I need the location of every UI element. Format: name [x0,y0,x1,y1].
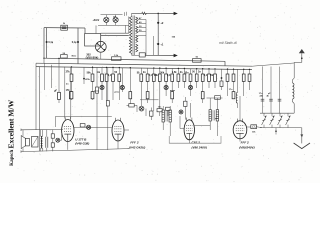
wire antenna to coupling coil [294,61,302,63]
svg-text:CFF 2: CFF 2 [192,141,201,145]
wire rectifier anode pair to transformer [101,32,129,34]
wire tube V4 leads [180,128,184,130]
arrowhead on ground drop [300,134,303,137]
wire output transformer leads [40,130,42,137]
node +1 tap [157,43,159,45]
wire tube V5 plate to resistor right [247,126,251,128]
wire chassis left vertical to bottom rail [39,67,41,152]
wire branch to bottom heater line [152,36,154,55]
svg-text:1m: 1m [97,71,100,74]
capacitor dot string x=84 [83,67,85,84]
resistor R2 in series on B+ wire [112,57,122,61]
resistor string x=113 [112,67,114,100]
resistor R-series on B+ wire (50) [61,55,68,58]
component string x=215.0 below bus [214,69,216,88]
component string x=202.7 below bus [202,69,204,103]
resistor string x=227.5 (17n) [227,69,229,96]
resistor string x=102 with trimmer [101,67,103,100]
wire extension x=153.8 down [153,88,155,111]
IF1 core [165,111,167,122]
wire audio comps to tube V2 [52,130,54,134]
bus line upper (HT rail) [36,63,252,66]
wire mains top horizontal [44,27,85,29]
fuse F1 on mains top wire [61,25,68,30]
wire rectifier cathode down to B+ wire [100,52,102,59]
wire tube V2 plate to coupling comps [74,126,112,128]
svg-text:50k: 50k [160,71,165,74]
resistor rect x=151 band [150,111,153,116]
wire B+ drop to bus right end [224,61,226,66]
wire mains right vertical [77,28,79,64]
speaker LS1 magnet [25,138,29,146]
wire tube V3 bottom to rail [117,141,119,149]
wire ground drop [301,128,303,144]
wire heater line top with arrow [132,12,177,14]
wire bottom heater line with arrow [146,54,177,56]
wire IF2 bottoms down [209,121,211,130]
wire extension x=159.8 down [159,88,161,109]
svg-text:27k: 27k [66,71,71,74]
resistor string x=233.5 [233,69,235,96]
resistor above tube V4 [184,101,187,106]
transformer T1 secondary winding section 3 [136,35,138,43]
component string x=209.0 below bus [208,69,210,88]
wire connections mid band [136,105,138,112]
antenna coupling coil L1 [292,78,294,83]
svg-text:µm: µm [215,118,218,120]
capacitor string x=59 from B+ wire [58,58,60,103]
svg-text:50k: 50k [87,71,92,74]
wire lamp row drop to switch box [95,25,97,33]
switch contact dot right with label [77,41,79,43]
IF transformer IF2 left winding [209,110,211,121]
bus line lower (chassis rail) [36,67,252,70]
svg-text:mit Stativ-dl: mit Stativ-dl [219,41,237,45]
svg-text:FFF 2: FFF 2 [130,141,138,145]
wire extension x=190.5 down to tube V4 top [190,103,192,118]
resistor string x=130.3 lower resistor [129,68,131,104]
trimmer cap string x=122.3 [121,68,123,92]
wire tube V4 plate to IF2 [195,125,211,127]
svg-text:(V50 80k): (V50 80k) [86,56,99,60]
svg-text:FFF 2: FFF 2 [241,141,249,145]
wire horizontal segment y=100 left of IF1 [140,99,159,101]
wire resistor to gang bottom rail [257,126,262,129]
svg-text:30k: 30k [154,74,159,77]
node dot on heater line [157,13,159,15]
wire mains left vertical pair [43,28,45,59]
wire IF2 top bracket [207,97,223,99]
tube V5 FFF 2 (mixer) [233,121,247,139]
wire tube V2 bottom to rail [67,142,69,150]
transformer T1 secondary winding section 2 [136,26,138,34]
wire stub x=51.5 below bus [51,65,53,88]
trimmer circle x=141.5 [139,106,144,111]
wire lamp row top [101,14,123,16]
wire antenna shaft [301,53,303,62]
component string x=159.8 below bus [159,68,161,88]
wire B+ left junction to bus [43,58,45,63]
rectifier tube V1 (circle with X) [95,41,106,52]
wire row above tube V2 [56,115,112,117]
wire audio top rail [21,129,63,131]
resistor block left of tube V2 [51,134,54,138]
wire antenna feed line top right [252,63,294,66]
wire speaker leads [22,130,24,136]
switch S1 mains selector box [85,34,101,47]
output transformer T2 magnet box [32,136,38,147]
IF transformer IF1 left winding [162,110,164,122]
wire extension x=141.3 down to trimmer row [140,88,142,106]
transformer T1 core [132,16,134,56]
wire tuner top rail [260,112,294,114]
trimmer circle C8 [87,125,91,129]
component string x=147.6 below bus [147,68,149,103]
wire tube V4 bottom stub [188,140,190,143]
variable capacitor gang (4 trimmer arrows) [263,113,265,116]
svg-text:1,5k: 1,5k [172,71,177,74]
wire transformer bottom lead [131,54,133,56]
component string x=190.5 below bus [190,69,192,96]
wire lamp row bottom [98,24,129,26]
wire audio bottom rail [21,149,129,152]
resistor string at x=64.8 (tube V2 grid feed) [64,67,66,119]
node +2 tap [157,22,159,24]
trimmer circle audio [56,138,60,142]
switch contact dot left with label [46,41,48,43]
wire lamp row right drop to transformer [125,25,127,33]
long wire x=97 bus to bottom [96,68,98,151]
svg-text:Kapsch: Kapsch [10,149,15,165]
wire tap bus vertical [145,20,147,56]
resistor R3 in series on B+ wire [193,59,202,63]
component string x=196.7 below bus [196,69,198,88]
ground chevron symbol [294,143,310,149]
wire stub x=44.7 below bus [44,63,46,90]
svg-text:Excellent M/W: Excellent M/W [7,99,16,148]
resistor string x=119.3 [118,68,120,100]
component string x=184.4 below bus [183,68,185,88]
transformer T1 secondary winding section 1 [136,17,138,25]
wire B+ distribution horizontal [44,58,225,61]
tube V4 CFF 2 [184,120,194,140]
wire gang to chassis [275,128,277,135]
trimmer circle left of tube V4 [179,110,183,114]
resistor rect x=159 band (10n) [157,109,162,112]
resistor string x=106.6 [106,67,108,100]
wire tube V5 top feed [239,111,241,121]
svg-text:(V90 240V): (V90 240V) [192,146,207,150]
scan noise overlay [1,1,319,182]
component string x=141.3 below bus [140,68,142,88]
component string x=166.1 below bus [165,68,167,96]
resistor string x=92.5 [92,67,94,100]
resistor R hatched right of V5 [251,125,257,129]
wire long vertical x=279.5 [279,67,281,114]
IF transformer IF1 right winding [169,110,171,122]
svg-text:µmax: µmax [94,91,100,93]
resistor string at x=70.8 [70,67,72,119]
svg-text:(V90/240V): (V90/240V) [239,146,254,150]
resistor rect x=167 band [166,107,171,110]
speaker LS1 cone [21,136,25,149]
antenna symbol [299,49,305,53]
IF2 core [212,110,214,120]
svg-text:0,1µ: 0,1µ [72,41,77,44]
resistor string x=71.5 with 27k label [71,67,73,100]
wire mains into switch box [84,28,86,34]
capacitor bars on tuner feeds [261,98,265,100]
wire tube V5 bottom stub [239,139,241,142]
wire coil to tuner rails [293,104,295,114]
capacitor block under transformer [139,53,145,57]
node dot antenna [301,57,303,59]
component string x=153.8 below bus [153,68,155,88]
wire IF1 leads [162,106,164,110]
transformer T1 primary winding [129,17,131,54]
svg-text:17k: 17k [66,89,71,92]
resistor block 2 left of tube V2 [51,143,54,147]
wire transformer primary top lead [131,13,133,16]
component string x=172.2 below bus [171,68,173,103]
coupling cap C7 [80,124,85,127]
oscillator coil L3 x=237.5 [237,69,239,93]
svg-text:+N kV: +N kV [93,19,100,22]
wire secondary taps [138,19,146,21]
wire bus left end vertical to audio rail [35,63,37,129]
resistor small zigzag on heater line [142,12,147,15]
wire tube V3 grid row [124,129,129,131]
wire long vertical x=271 [270,67,272,114]
component string x=178.4 below bus [177,68,179,88]
resistor string x=243.7 [243,69,245,96]
wire tuner bottom rail [260,127,302,129]
long wire x=107.8 to bottom [107,68,109,150]
wire U-link cathode line [169,136,221,143]
switch S2 marks above transformer [123,12,125,16]
capacitor C tone across output [45,137,47,148]
IF transformer IF2 right winding [216,110,218,121]
tube V2 output pentode U 177 B [62,120,74,142]
svg-text:(V42 G42U): (V42 G42U) [129,146,145,150]
svg-text:10n: 10n [184,71,189,74]
diode string x=221.5 [221,69,223,90]
node junction mains to B+ wire [43,58,44,59]
resistor string x=249.5 [249,69,251,90]
svg-text:OB: OB [113,17,117,19]
svg-text:µmax: µmax [114,92,120,94]
svg-text:µmax: µmax [170,90,176,92]
transformer T1 secondary winding section 4 [136,44,138,52]
wire long vertical x=262.5 bus to tuner [262,66,264,113]
node dot below gang [275,130,277,132]
svg-text:0,1µ: 0,1µ [48,41,53,44]
svg-text:(V48 G38): (V48 G38) [75,141,89,145]
output transformer T2 winding [41,136,42,148]
coupling cap C mid at x=130 [129,104,134,107]
wire +2/+1 feed vertical [157,13,159,55]
tube V3 FFF 2 [112,120,124,141]
pilot lamp La2 with label OB [113,17,118,22]
